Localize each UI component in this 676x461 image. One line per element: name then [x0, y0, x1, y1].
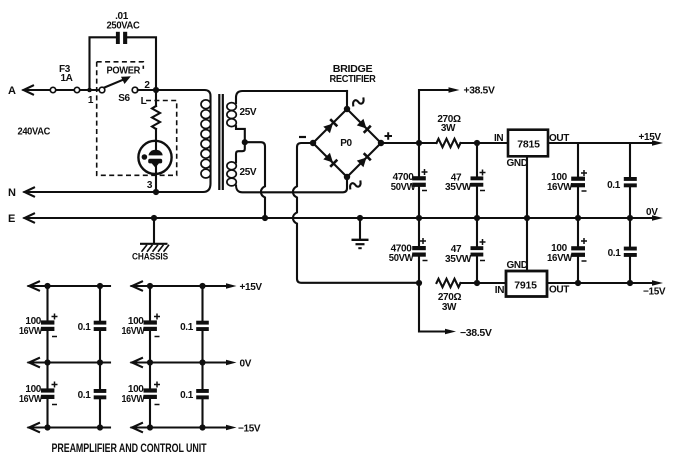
capacitor C13 100 16VW block2 upper [122, 286, 161, 363]
node upper 47 cap tap [474, 140, 480, 146]
svg-text:16VW: 16VW [547, 182, 573, 193]
node lower 0.1 cap tap [627, 280, 633, 286]
svg-text:16VW: 16VW [19, 326, 43, 337]
node 0V rail dots [416, 215, 633, 221]
node bridge bottom vertex [344, 174, 350, 180]
node 3 junction dot [147, 180, 159, 195]
svg-text:PREAMPLIFIER AND CONTROL UNIT: PREAMPLIFIER AND CONTROL UNIT [52, 443, 207, 455]
svg-text:1A: 1A [60, 73, 72, 84]
svg-text:0V: 0V [646, 207, 658, 218]
svg-text:7815: 7815 [517, 138, 540, 150]
svg-text:−15V: −15V [238, 424, 261, 435]
resistor R1 270ohm 3W upper [437, 114, 461, 147]
svg-text:IN: IN [494, 133, 503, 144]
wire switch to transformer [138, 89, 156, 91]
regulator U2 7915 [495, 260, 570, 297]
wire positive rail bridge to resistor [381, 142, 437, 144]
wire 7815 GND to 0V [526, 156, 528, 218]
label BRIDGE RECTIFIER [330, 64, 377, 85]
svg-text:+15V: +15V [240, 282, 263, 293]
node block1 rail dots [44, 283, 103, 431]
wire +38.5V tap [419, 90, 450, 143]
wire secondary top lead [236, 91, 347, 103]
node N terminal arrow [8, 187, 34, 199]
resistor R2 270ohm 3W lower [437, 279, 462, 313]
wire secondary bottom lead to bridge [236, 177, 347, 192]
wire -15V rail [547, 282, 653, 284]
node bridge top vertex [344, 106, 350, 112]
svg-text:−15V: −15V [643, 287, 666, 298]
svg-text:0.1: 0.1 [608, 248, 622, 259]
svg-text:16VW: 16VW [547, 253, 573, 264]
svg-text:7915: 7915 [514, 279, 537, 291]
transformer T1 secondary upper winding 25V [227, 103, 257, 127]
svg-text:3: 3 [147, 180, 153, 191]
svg-text:35VW: 35VW [445, 254, 472, 265]
svg-text:POWER: POWER [107, 66, 142, 77]
transformer T1 core [219, 94, 223, 190]
wire bridge minus lead with hops [293, 143, 419, 283]
node center tap on E line [262, 215, 268, 221]
svg-text:OUT: OUT [549, 285, 569, 296]
svg-text:L: L [141, 96, 147, 107]
svg-text:+15V: +15V [639, 132, 662, 143]
svg-text:0.1: 0.1 [180, 390, 194, 401]
svg-text:GND: GND [507, 158, 528, 169]
node A terminal arrow [8, 85, 33, 97]
svg-text:50VW: 50VW [389, 253, 414, 264]
wire lamp to N [155, 166, 157, 192]
fuse F3 1A [50, 64, 79, 93]
arrow +38.5V [449, 86, 496, 97]
capacitor C10 0.1 block1 upper [78, 286, 107, 363]
preamp block2 -15V rail [132, 423, 261, 435]
arrow +15V [639, 132, 664, 146]
svg-text:240VAC: 240VAC [18, 127, 51, 138]
label minus bridge [299, 136, 306, 138]
switch S6 [99, 76, 138, 104]
wire A line mains live [24, 89, 100, 91]
svg-text:IN: IN [495, 285, 504, 296]
capacitor C2 47 35VW upper [445, 143, 486, 218]
capacitor C9 100 16VW block1 upper [19, 286, 58, 363]
svg-text:−38.5V: −38.5V [460, 328, 492, 339]
preamp block1 +15V rail [29, 282, 111, 291]
diode D3 bottom-left [323, 153, 337, 167]
svg-text:16VW: 16VW [122, 394, 146, 405]
capacitor C5 4700 50VW lower [389, 218, 428, 283]
wire resistor to 7915 [461, 282, 507, 284]
capacitor C12 0.1 block1 lower [78, 363, 107, 428]
node bridge left vertex [310, 140, 316, 146]
node lower 47 cap tap [474, 280, 480, 286]
wire snubber loop left [90, 37, 116, 90]
svg-text:35VW: 35VW [445, 182, 472, 193]
svg-text:S6: S6 [118, 93, 130, 104]
svg-text:16VW: 16VW [122, 326, 146, 337]
svg-text:3W: 3W [442, 302, 457, 313]
svg-text:25V: 25V [240, 167, 257, 178]
svg-text:0.1: 0.1 [607, 180, 621, 191]
arrow -15V [643, 280, 666, 297]
capacitor C14 0.1 block2 upper [180, 286, 209, 363]
svg-text:16VW: 16VW [19, 394, 43, 405]
svg-text:3W: 3W [441, 123, 456, 134]
wire center tap to 0V with hop [245, 142, 265, 218]
node chassis tap dot [151, 215, 157, 221]
arrow 0V right [646, 207, 663, 221]
wire E line 0V bus [25, 217, 653, 219]
wire snubber loop right [127, 37, 156, 90]
arrow -38.5V [445, 328, 492, 339]
wire bridge top lead [346, 91, 348, 109]
label plus bridge [385, 132, 393, 139]
node center tap junction [242, 139, 248, 145]
preamp block2 +15V rail [132, 282, 263, 294]
label AC tilde top [352, 97, 365, 106]
capacitor C7 100 16VW lower [547, 218, 587, 283]
diode D1 top-left [323, 119, 337, 133]
preamp block1 0V rail [29, 358, 111, 367]
svg-text:0.1: 0.1 [78, 390, 92, 401]
svg-text:P0: P0 [340, 138, 352, 149]
diode D4 bottom-right [357, 153, 371, 167]
node 2 junction dot [153, 87, 159, 93]
capacitor C .01 250VAC [107, 11, 140, 44]
capacitor C11 100 16VW block1 lower [19, 363, 58, 428]
capacitor C8 0.1 lower [608, 218, 637, 283]
svg-text:CHASSIS: CHASSIS [132, 252, 168, 262]
svg-text:0.1: 0.1 [78, 322, 92, 333]
capacitor C15 100 16VW block2 lower [122, 363, 161, 428]
wire upper winding to center tap [236, 126, 245, 140]
capacitor C16 0.1 block2 lower [180, 363, 209, 428]
wire 7915 GND to 0V [526, 218, 528, 271]
wire resistor to 7815 [461, 142, 509, 144]
svg-text:E: E [8, 213, 15, 225]
regulator U1 7815 [494, 130, 569, 169]
lamp neon indicator [138, 129, 171, 174]
diode D2 top-right [357, 119, 371, 133]
capacitor C3 100 16VW upper [547, 143, 587, 218]
svg-text:50VW: 50VW [391, 182, 416, 193]
svg-text:0.1: 0.1 [180, 322, 194, 333]
wire -38.5V tap [419, 283, 446, 332]
svg-text:250VAC: 250VAC [107, 20, 140, 31]
node positive rail x419 [416, 140, 422, 146]
resistor lamp dropper [152, 106, 160, 129]
bridge rectifier P0 diamond [313, 109, 381, 177]
earth ground [352, 215, 369, 248]
capacitor C1 4700 50VW upper [391, 143, 428, 218]
wire center tap to lower winding [236, 142, 245, 162]
svg-text:+38.5V: +38.5V [464, 86, 496, 97]
node block2 rail dots [147, 283, 206, 431]
node bridge right vertex [378, 140, 384, 146]
svg-text:25V: 25V [240, 107, 257, 118]
power unit dashed outline [97, 62, 177, 176]
transformer T1 primary winding [201, 100, 211, 178]
svg-text:N: N [8, 187, 16, 199]
node lower 100 cap tap [575, 280, 581, 286]
preamp block2 0V rail [132, 358, 252, 370]
svg-text:A: A [8, 85, 16, 97]
label AC tilde bottom [349, 180, 362, 189]
node minus rail x419 [416, 280, 422, 286]
svg-text:0V: 0V [240, 359, 252, 370]
node E terminal arrow [8, 213, 34, 225]
preamp block1 -15V rail [29, 423, 111, 432]
transformer T1 secondary lower winding 25V [227, 162, 257, 186]
capacitor C6 47 35VW lower [445, 218, 486, 283]
svg-text:GND: GND [507, 260, 528, 271]
svg-text:1: 1 [88, 95, 94, 106]
wire lamp branch top [155, 90, 157, 106]
capacitor C4 0.1 upper [607, 143, 637, 218]
node 1 junction dot [87, 88, 94, 106]
wire N line and transformer primary spine [25, 90, 211, 192]
chassis ground [132, 218, 169, 262]
svg-text:RECTIFIER: RECTIFIER [330, 74, 377, 85]
wire +15V rail [548, 142, 653, 144]
